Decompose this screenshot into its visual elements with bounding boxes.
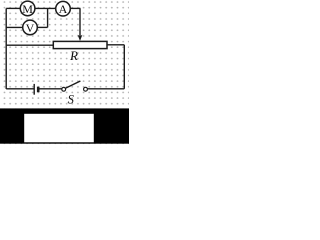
wire: switch to bottom right corner	[87, 88, 124, 90]
motor M	[20, 1, 35, 16]
wire: resistor row from frame	[6, 44, 53, 46]
ammeter A	[56, 1, 71, 16]
wire: slider vertical with arrow	[79, 8, 81, 36]
battery cell: long plate	[33, 84, 35, 95]
svg-text:V: V	[26, 21, 35, 35]
switch S: lever	[65, 81, 80, 88]
resistor R (rheostat box)	[53, 41, 107, 48]
voltmeter V	[23, 20, 38, 35]
switch S: right contact	[84, 87, 88, 91]
dotted halftone background	[0, 0, 129, 148]
switch S: left contact	[62, 87, 66, 91]
wire: left frame vertical	[5, 8, 7, 89]
wire: bottom left to battery	[6, 88, 34, 90]
battery cell: short thick plate	[37, 87, 40, 93]
svg-text:M: M	[22, 2, 33, 16]
wire: V to junction	[37, 26, 47, 28]
wire: resistor to right corner	[107, 44, 124, 46]
svg-text:R: R	[69, 48, 78, 63]
wire: voltmeter row left	[6, 26, 22, 28]
slider arrowhead	[78, 35, 83, 41]
wire: right frame vertical	[123, 45, 125, 89]
wire: A to top-right corner	[70, 7, 80, 9]
wire: top segment frame to M	[6, 7, 20, 9]
white inner rectangle	[24, 114, 94, 143]
black censor rectangle	[0, 108, 129, 143]
svg-text:A: A	[59, 2, 68, 16]
svg-text:S: S	[68, 92, 75, 106]
node: junction drop to voltmeter row	[47, 8, 49, 27]
wire: M to A (through junction)	[35, 7, 56, 9]
wire: battery to switch	[40, 88, 62, 90]
